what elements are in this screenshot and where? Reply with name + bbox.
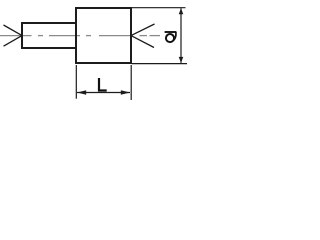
d dimension arrow up [179,8,184,14]
small cylinder (shank) outline [22,23,76,48]
large cylinder (body) outline [76,8,131,63]
L dimension arrow right [121,90,130,94]
d extension line bottom [132,63,187,65]
left open arrowhead on axis [4,25,23,46]
L extension line right [130,65,132,100]
L dimension line [77,92,130,94]
label d (rotated) [165,32,176,43]
centerline (dash-dot axis) [0,35,160,37]
right open arrowhead on axis [131,24,155,48]
label L [99,78,107,91]
d dimension line [180,8,182,63]
d extension line top [132,7,186,9]
L dimension arrow left [77,90,86,94]
L extension line left [75,65,77,99]
d dimension arrow down [179,57,184,63]
